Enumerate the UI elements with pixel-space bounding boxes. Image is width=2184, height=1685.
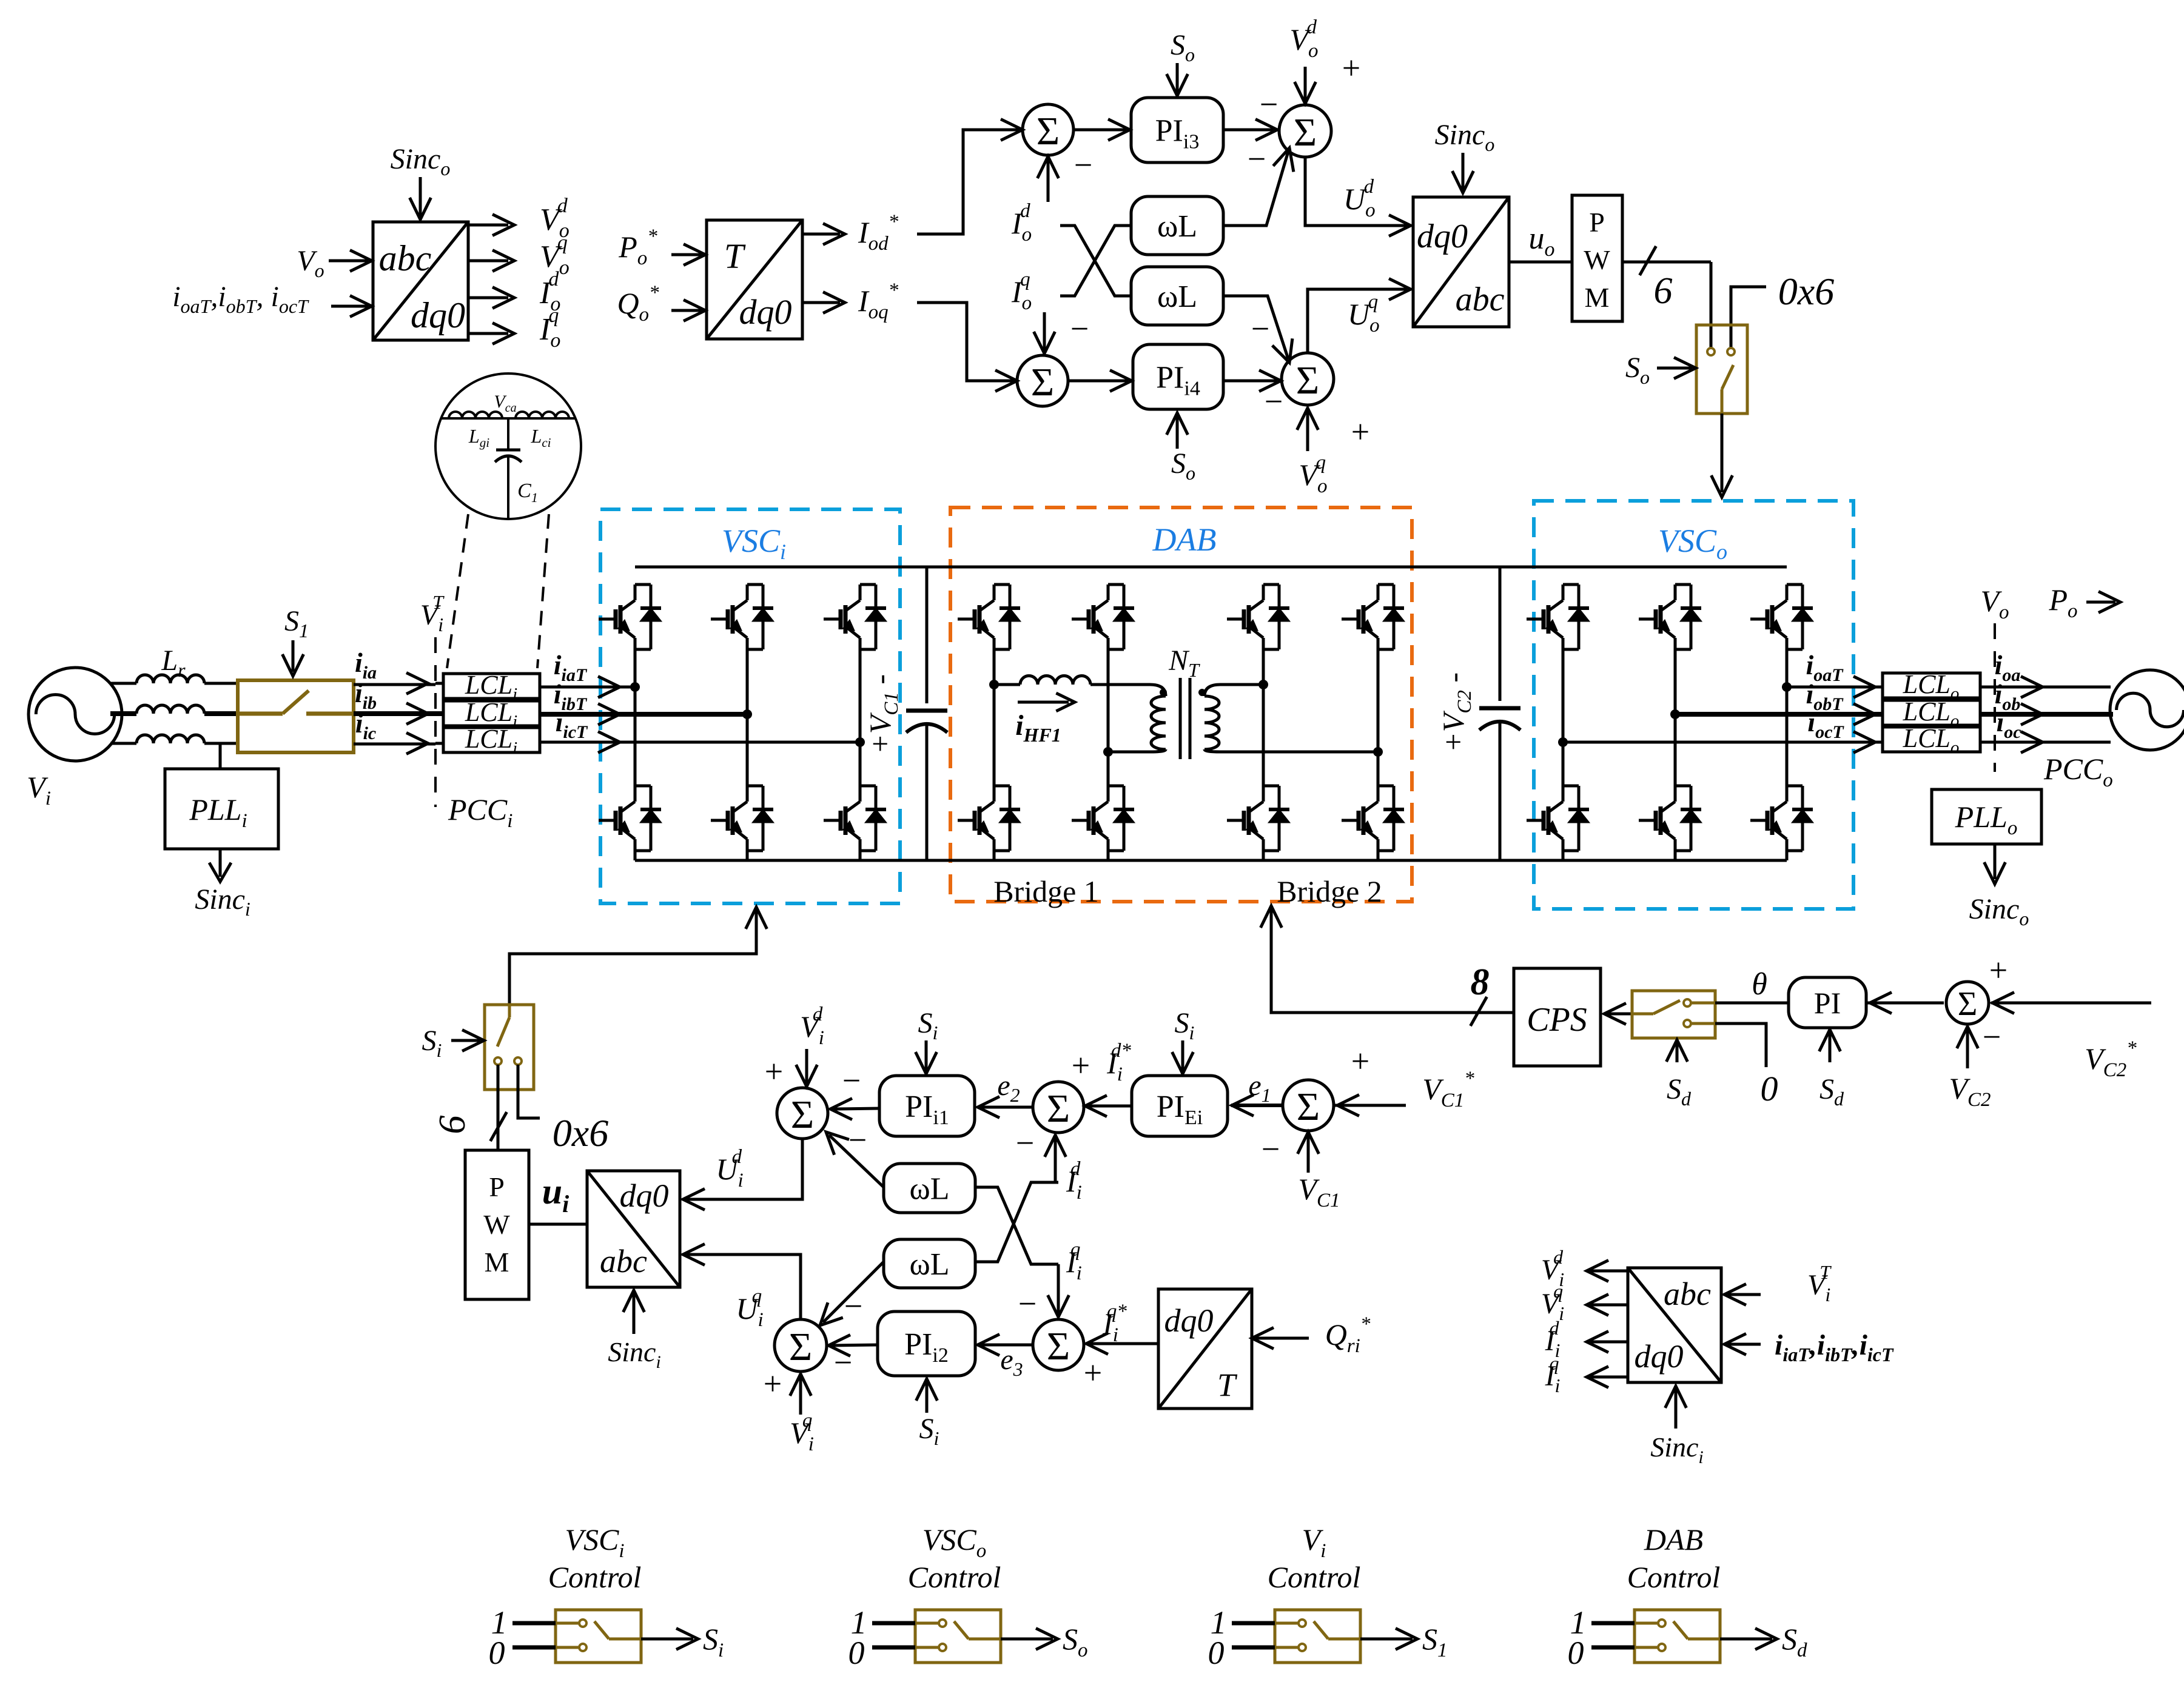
- svg-text:+: +: [764, 1365, 782, 1402]
- svg-text:−: −: [848, 1122, 867, 1158]
- svg-text:abc: abc: [379, 238, 432, 278]
- svg-text:W: W: [1584, 244, 1610, 275]
- svg-text:Control: Control: [908, 1560, 1001, 1594]
- svg-text:Bridge 2: Bridge 2: [1277, 874, 1382, 908]
- svg-text:abc: abc: [600, 1243, 647, 1279]
- svg-text:dq0: dq0: [1164, 1302, 1214, 1339]
- svg-text:ωL: ωL: [1157, 280, 1197, 314]
- svg-text:DAB: DAB: [1152, 521, 1217, 558]
- svg-text:+: +: [1072, 1047, 1090, 1084]
- svg-text:Sinci: Sinci: [195, 883, 250, 920]
- svg-text:Sinci: Sinci: [608, 1336, 661, 1372]
- svg-text:−: −: [1262, 1131, 1280, 1167]
- svg-text:W: W: [483, 1209, 510, 1240]
- svg-text:−: −: [1251, 310, 1269, 347]
- svg-text:T: T: [724, 236, 746, 276]
- svg-text:−: −: [1248, 141, 1266, 177]
- svg-text:0x6: 0x6: [1778, 270, 1834, 313]
- svg-text:M: M: [1585, 282, 1610, 313]
- svg-text:dq0: dq0: [1635, 1338, 1684, 1375]
- svg-text:+: +: [1351, 414, 1369, 450]
- svg-text:P: P: [1589, 207, 1605, 238]
- svg-text:dq0: dq0: [620, 1177, 669, 1214]
- svg-text:0x6: 0x6: [553, 1111, 608, 1154]
- svg-text:LCLi: LCLi: [465, 724, 517, 758]
- svg-text:+: +: [1342, 50, 1360, 86]
- svg-text:−: −: [1260, 86, 1278, 122]
- svg-text:0: 0: [489, 1635, 505, 1671]
- svg-text:0: 0: [848, 1635, 865, 1671]
- svg-text:Control: Control: [548, 1560, 642, 1594]
- svg-text:−: −: [1074, 147, 1092, 183]
- svg-text:Control: Control: [1268, 1560, 1361, 1594]
- svg-text:Σ: Σ: [1294, 110, 1317, 155]
- svg-text:Σ: Σ: [1958, 985, 1978, 1023]
- svg-text:+: +: [765, 1053, 783, 1090]
- svg-text:θ: θ: [1752, 967, 1767, 1002]
- svg-text:dq0: dq0: [411, 295, 465, 335]
- svg-text:−: −: [1016, 1125, 1034, 1161]
- svg-text:+: +: [1351, 1043, 1369, 1079]
- svg-text:VSCi: VSCi: [722, 523, 786, 564]
- svg-text:abc: abc: [1664, 1276, 1711, 1312]
- svg-text:6: 6: [1654, 270, 1673, 312]
- svg-text:CPS: CPS: [1527, 1001, 1587, 1039]
- svg-text:DAB: DAB: [1644, 1523, 1703, 1556]
- svg-text:6: 6: [432, 1116, 473, 1134]
- svg-text:ωL: ωL: [910, 1247, 950, 1282]
- svg-text:0: 0: [1208, 1635, 1225, 1671]
- svg-text:abc: abc: [1456, 281, 1505, 318]
- svg-text:Σ: Σ: [1031, 360, 1054, 404]
- svg-text:Σ: Σ: [1047, 1087, 1070, 1131]
- svg-text:Σ: Σ: [1296, 358, 1319, 403]
- svg-text:dq0: dq0: [739, 292, 792, 332]
- svg-text:PCCo: PCCo: [2043, 752, 2113, 791]
- svg-text:ωL: ωL: [1157, 209, 1197, 244]
- svg-text:Control: Control: [1627, 1560, 1721, 1594]
- svg-text:Σ: Σ: [791, 1093, 814, 1137]
- svg-text:+: +: [1084, 1355, 1102, 1391]
- svg-text:Σ: Σ: [789, 1325, 812, 1369]
- svg-text:Σ: Σ: [1037, 109, 1060, 153]
- svg-text:ωL: ωL: [910, 1172, 950, 1207]
- svg-text:dq0: dq0: [1417, 218, 1468, 255]
- svg-text:−: −: [1070, 310, 1089, 347]
- svg-text:−: −: [1018, 1285, 1037, 1322]
- svg-text:M: M: [485, 1247, 509, 1278]
- svg-text:Σ: Σ: [1297, 1085, 1320, 1129]
- svg-text:+: +: [1989, 952, 2008, 988]
- svg-text:PI: PI: [1814, 986, 1841, 1020]
- svg-text:0: 0: [1568, 1635, 1584, 1671]
- svg-text:PCCi: PCCi: [448, 792, 512, 832]
- svg-text:−: −: [1983, 1019, 2001, 1055]
- svg-text:Sinci: Sinci: [1650, 1432, 1704, 1467]
- svg-text:−: −: [842, 1062, 861, 1099]
- svg-text:−: −: [1265, 383, 1283, 420]
- svg-text:PLLi: PLLi: [189, 792, 247, 832]
- svg-text:T: T: [1217, 1367, 1238, 1403]
- svg-text:−: −: [844, 1288, 862, 1324]
- svg-text:Bridge 1: Bridge 1: [993, 874, 1099, 908]
- svg-text:Σ: Σ: [1047, 1324, 1070, 1368]
- svg-text:P: P: [489, 1171, 505, 1202]
- svg-text:VSCi: VSCi: [565, 1523, 624, 1562]
- svg-text:−: −: [834, 1344, 852, 1381]
- svg-text:0: 0: [1761, 1069, 1778, 1108]
